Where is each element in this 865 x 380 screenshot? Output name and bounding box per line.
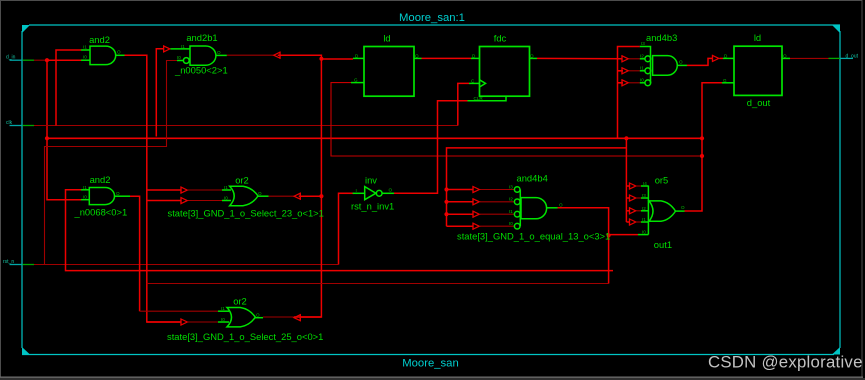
wire inv output to fdc CLR xyxy=(394,101,468,194)
svg-text:state[3]_GND_1_o_Select_23_o<1: state[3]_GND_1_o_Select_23_o<1>1 xyxy=(168,208,324,219)
junction d_in tap xyxy=(45,58,49,62)
svg-text:and2: and2 xyxy=(90,174,111,185)
fdc flip-flop block xyxy=(468,47,538,101)
wire stub to or2 Select_23 input I1 xyxy=(147,189,181,191)
wire or2 Select_25 lower input lead xyxy=(188,321,218,323)
wire state bus distribution xyxy=(447,148,627,226)
wire and4b4 output to or5 I0 and feedback xyxy=(558,208,609,284)
svg-text:d_out: d_out xyxy=(747,97,771,108)
svg-text:I4: I4 xyxy=(643,181,647,186)
wire or5 bus riser xyxy=(625,138,627,222)
svg-text:_n0050<2>1: _n0050<2>1 xyxy=(174,64,228,75)
svg-text:I0: I0 xyxy=(177,55,181,60)
wire and4b3 output to d_out D xyxy=(687,58,712,65)
svg-text:O: O xyxy=(389,187,393,192)
svg-text:CSDN @explorative: CSDN @explorative xyxy=(708,353,863,372)
wire d_out D lead after arrow xyxy=(720,57,724,59)
svg-text:Moore_san: Moore_san xyxy=(402,357,459,369)
arrow into or2 Select_23 I0 xyxy=(181,197,187,204)
svg-text:state[3]_GND_1_o_Select_25_o<0: state[3]_GND_1_o_Select_25_o<0>1 xyxy=(167,331,323,342)
arrow on or2 Select_23 output (left) xyxy=(294,193,300,200)
wire ld Q to fdc D xyxy=(422,57,472,59)
junction out1 riser mid xyxy=(700,136,704,140)
svg-text:I3: I3 xyxy=(642,193,646,198)
svg-text:inv: inv xyxy=(365,175,377,186)
svg-text:or5: or5 xyxy=(655,175,669,186)
svg-text:O: O xyxy=(217,50,221,55)
wire and4b4 input leads after arrows xyxy=(480,190,515,227)
wire or5 input leads after arrows xyxy=(637,186,642,222)
arrows into or5 inputs xyxy=(630,183,636,190)
or5 gate out1 xyxy=(638,186,685,235)
wire stub to or2 Select_23 input I0 xyxy=(147,200,181,202)
svg-text:O: O xyxy=(258,191,262,196)
junction d_in / long net xyxy=(45,136,49,140)
wire and4b3 I3 riser xyxy=(618,47,640,139)
wire clk to and2 upper input xyxy=(56,50,81,126)
arrow into d_out ld D xyxy=(713,55,719,62)
junction state bus I1 xyxy=(444,212,448,216)
sheet corner fold top-right xyxy=(832,25,840,33)
and4b3 gate xyxy=(640,47,687,86)
svg-text:ld: ld xyxy=(754,32,761,43)
svg-text:Moore_san:1: Moore_san:1 xyxy=(399,12,465,24)
svg-text:and2b1: and2b1 xyxy=(186,32,217,43)
wire and2 output net vertical xyxy=(125,55,182,322)
svg-text:I1: I1 xyxy=(221,306,225,311)
svg-text:O: O xyxy=(681,205,685,210)
arrows into and4b4 inputs xyxy=(473,186,479,193)
sheet corner fold top-left xyxy=(22,25,30,33)
svg-text:ld: ld xyxy=(383,33,390,44)
wire fdc Q to and4b3 I2 xyxy=(537,57,622,59)
svg-text:I0: I0 xyxy=(640,78,644,83)
wire branch to or5 I0 xyxy=(609,234,638,236)
and2 gate top (clk & d_in) xyxy=(81,46,125,65)
wire and2b1 output to ld D and down xyxy=(227,55,353,317)
and4b4 gate equal_13 xyxy=(514,187,557,229)
wire and2 _n0068 output net xyxy=(130,196,140,311)
svg-text:rst_n_inv1: rst_n_inv1 xyxy=(351,201,394,212)
wire and4b3 I0 lead after arrow xyxy=(629,82,640,84)
svg-text:I0: I0 xyxy=(642,229,646,234)
svg-text:I2: I2 xyxy=(640,54,644,59)
junction or2 output on vertical xyxy=(319,194,323,198)
svg-text:I2: I2 xyxy=(642,206,646,211)
svg-text:G: G xyxy=(354,78,358,83)
and2 gate _n0068 xyxy=(81,188,130,205)
wire inv input lead xyxy=(339,192,355,194)
wire or2 Select_25 upper input lead xyxy=(140,310,218,312)
svg-text:Q: Q xyxy=(783,53,787,58)
wire stubs to and4b4 arrows xyxy=(447,190,474,227)
svg-text:I0: I0 xyxy=(509,221,513,226)
wire d_out Q to port xyxy=(790,57,853,59)
sheet corner fold bottom-right xyxy=(832,347,840,355)
svg-text:I3: I3 xyxy=(641,41,645,46)
svg-text:I1: I1 xyxy=(640,66,644,71)
svg-text:or2: or2 xyxy=(233,296,247,307)
wire or2 Select_25 lower input feed xyxy=(147,321,181,323)
wire rst_n branch to and2b1 bubble input xyxy=(45,61,178,265)
arrow on or2 Select_25 output (left) xyxy=(294,314,300,321)
wire or2 Select_23 output xyxy=(269,195,322,197)
svg-text:Q: Q xyxy=(530,53,534,58)
svg-text:I0: I0 xyxy=(83,54,87,59)
svg-text:O: O xyxy=(559,202,563,207)
wire and4b3 input stub I1 xyxy=(618,70,624,72)
wire and4b3 input stub I0 xyxy=(618,82,624,84)
svg-text:I1: I1 xyxy=(83,45,87,50)
svg-text:and4b3: and4b3 xyxy=(646,32,677,43)
wire and4b3 I1 lead after arrow xyxy=(629,70,640,72)
svg-text:CLR: CLR xyxy=(474,96,484,101)
svg-text:O: O xyxy=(679,60,683,65)
svg-text:out1: out1 xyxy=(654,239,672,250)
wire clk to fdc clock xyxy=(458,83,469,125)
wire and4b3 arrows feed stubs xyxy=(618,71,623,83)
svg-text:I1: I1 xyxy=(224,185,228,190)
wire ld G enable net xyxy=(331,83,702,156)
wire or2 Select_25 output xyxy=(263,316,321,318)
wire and2 _n0068 upper input feed xyxy=(66,190,614,271)
wire d_in long distribution net xyxy=(47,137,702,139)
svg-text:and4b4: and4b4 xyxy=(517,173,548,184)
wire d_in port lead xyxy=(10,59,82,61)
svg-text:O: O xyxy=(256,313,260,318)
svg-text:fdc: fdc xyxy=(494,33,507,44)
svg-text:_n0068<0>1: _n0068<0>1 xyxy=(74,206,128,217)
svg-text:I1: I1 xyxy=(642,217,646,222)
junction state bus I3 xyxy=(444,187,448,191)
junction or5 riser on L1 xyxy=(624,136,628,140)
junction state bus I2 xyxy=(444,200,448,204)
svg-text:and2: and2 xyxy=(89,34,110,45)
wire or2 Select_23 input lead I1 xyxy=(188,189,222,191)
wire clk port lead xyxy=(10,125,458,127)
svg-text:O: O xyxy=(116,191,120,196)
svg-text:I0: I0 xyxy=(224,196,228,201)
ld latch block (left) xyxy=(351,47,422,97)
wire or2 Select_23 input lead I0 xyxy=(188,200,222,202)
wire d_in vertical riser xyxy=(47,60,81,200)
svg-text:state[3]_GND_1_o_equal_13_o<3>: state[3]_GND_1_o_equal_13_o<3>1 xyxy=(457,230,610,241)
and2b1 gate _n0050 xyxy=(170,46,226,65)
arrow into or2 Select_23 I1 xyxy=(181,187,187,194)
wire feedback net lower xyxy=(147,283,609,285)
svg-text:I1: I1 xyxy=(83,185,87,190)
svg-text:I0: I0 xyxy=(221,317,225,322)
wire and2b1 I1 feed xyxy=(156,49,163,137)
or2 gate Select_25 xyxy=(218,308,263,327)
svg-text:rst_n: rst_n xyxy=(3,259,14,265)
svg-text:I2: I2 xyxy=(509,197,513,202)
svg-text:I1: I1 xyxy=(509,209,513,214)
junction enable net at out1 riser xyxy=(700,154,704,158)
svg-text:d_out: d_out xyxy=(846,54,859,60)
svg-text:I: I xyxy=(356,188,357,193)
wire rst_n port lead xyxy=(10,264,339,266)
wire and4b3 I2 lead after arrow xyxy=(629,58,640,60)
svg-text:I1: I1 xyxy=(181,44,185,49)
svg-text:I0: I0 xyxy=(83,195,87,200)
arrows into and4b3 inputs xyxy=(622,55,628,62)
arrow into or2 Select_25 I0 xyxy=(181,319,187,326)
svg-text:d_in: d_in xyxy=(6,55,16,61)
wire out1 net riser xyxy=(685,83,723,211)
wire stubs to or5 arrows xyxy=(626,186,629,222)
svg-text:Q: Q xyxy=(415,53,419,58)
arrow on and2b1 output net (left) xyxy=(274,52,280,59)
wire rst_n riser to inv xyxy=(339,193,355,264)
sheet corner fold bottom-left xyxy=(22,347,30,355)
svg-text:clk: clk xyxy=(6,120,13,126)
svg-text:G: G xyxy=(723,78,727,83)
arrow into and2b1 I1 xyxy=(164,45,170,52)
ld latch block d_out xyxy=(722,46,790,95)
svg-text:or2: or2 xyxy=(235,175,249,186)
junction and4b4 out branch xyxy=(607,233,611,237)
svg-text:I3: I3 xyxy=(509,184,513,189)
or2 gate Select_23 xyxy=(222,186,269,205)
svg-text:O: O xyxy=(117,50,121,55)
junction ld D branch xyxy=(319,57,323,61)
inv gate rst_n_inv1 xyxy=(353,187,394,200)
